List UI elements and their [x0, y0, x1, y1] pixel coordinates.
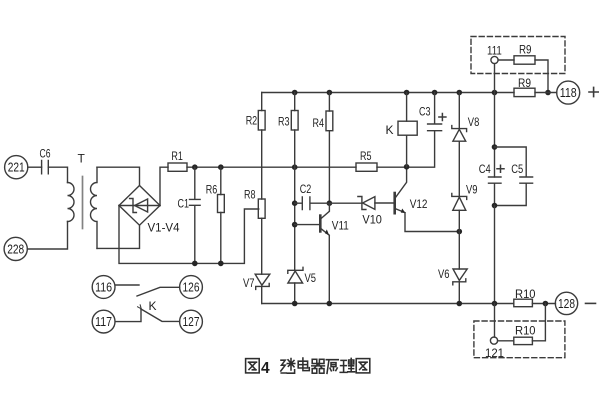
- svg-text:C5: C5: [511, 162, 523, 176]
- svg-text:V1-V4: V1-V4: [148, 221, 180, 235]
- node K top: [404, 90, 410, 96]
- svg-text:C6: C6: [40, 147, 51, 161]
- node C2 V11 collector: [327, 200, 333, 206]
- wire V7 to bottom rail: [261, 286, 263, 303]
- node C4 column top: [492, 90, 498, 96]
- wire C6 to transformer primary: [48, 167, 67, 182]
- bridge minus bus wire: [119, 206, 259, 264]
- svg-text:C2: C2: [300, 182, 312, 196]
- wire V9 to V6: [458, 210, 460, 269]
- node R10 branch: [543, 301, 549, 307]
- node C1 top: [192, 164, 198, 170]
- svg-text:R1: R1: [171, 149, 183, 163]
- wire 221 to C6: [28, 166, 42, 168]
- wire 121 column below rail: [494, 304, 496, 338]
- node V6 bottom: [457, 301, 463, 307]
- wire V6 to bottom rail: [458, 282, 460, 304]
- wire mid rail R1 to R5: [187, 166, 356, 168]
- node V8 top: [457, 90, 463, 96]
- terminal 117: [92, 310, 115, 333]
- capacitor C5: [495, 147, 533, 206]
- svg-text:126: 126: [183, 280, 200, 294]
- svg-text:T: T: [78, 152, 86, 166]
- node R9 branch: [545, 90, 551, 96]
- node V11 emitter bottom: [327, 301, 333, 307]
- svg-text:V9: V9: [466, 183, 478, 197]
- wire secondary bottom to bridge: [97, 225, 140, 248]
- wire C4 column: [494, 93, 496, 178]
- svg-text:R2: R2: [246, 113, 258, 127]
- capacitor C2: [295, 182, 362, 210]
- resistor R9 upper: [514, 43, 535, 65]
- svg-text:116: 116: [95, 280, 112, 294]
- terminal 118: [557, 81, 580, 104]
- zener V6: [438, 267, 467, 285]
- bottom rail wire: [262, 303, 514, 305]
- transformer T primary winding: [68, 152, 86, 222]
- resistor R2: [246, 93, 265, 200]
- wire R9 upper to rail: [535, 60, 548, 93]
- node R6 top: [218, 164, 224, 170]
- svg-text:C1: C1: [178, 197, 190, 211]
- svg-text:K: K: [386, 123, 394, 137]
- node C1 bottom: [192, 261, 198, 267]
- switch contact K1 116-126: [115, 285, 179, 296]
- wire 111 column: [494, 64, 496, 93]
- node R6 bottom: [218, 261, 224, 267]
- wire secondary top to bridge: [97, 167, 140, 185]
- node C4 bottom: [492, 203, 498, 209]
- terminal 228: [4, 237, 27, 260]
- caption 图4 继电器原理图: [246, 358, 370, 377]
- node V12 emitter to zener column: [457, 229, 463, 235]
- svg-text:C3: C3: [419, 105, 431, 119]
- zener V7: [243, 274, 270, 290]
- svg-text:R4: R4: [313, 116, 325, 130]
- wire 111 to R9: [498, 59, 514, 61]
- svg-text:V7: V7: [243, 276, 255, 290]
- resistor R10 lower: [514, 323, 536, 344]
- wire R5 to C3 bottom: [377, 131, 435, 168]
- svg-text:K: K: [149, 299, 157, 313]
- svg-text:228: 228: [7, 242, 24, 256]
- node R3 top: [292, 90, 298, 96]
- dashed box 111: [471, 37, 565, 74]
- svg-text:C4: C4: [479, 162, 491, 176]
- capacitor C1: [178, 167, 201, 263]
- plus sign 118: [589, 87, 598, 96]
- terminal 116: [92, 276, 115, 299]
- svg-text:117: 117: [95, 315, 112, 329]
- switch contact K2 117-127: [115, 299, 179, 322]
- wire V5 to bottom rail: [294, 283, 296, 304]
- resistor R9 lower: [514, 76, 535, 97]
- wire C4 column to bottom rail: [494, 206, 496, 304]
- resistor R6: [206, 167, 225, 263]
- svg-text:V12: V12: [410, 197, 428, 211]
- diode V10: [358, 197, 395, 227]
- svg-text:221: 221: [8, 161, 25, 175]
- terminal 128: [555, 292, 577, 314]
- svg-text:R5: R5: [360, 149, 372, 163]
- node K bottom V12 collector: [404, 164, 410, 170]
- svg-text:V11: V11: [332, 219, 349, 233]
- svg-text:V6: V6: [438, 267, 450, 281]
- resistor R1: [168, 149, 187, 171]
- terminal 111: [487, 44, 502, 64]
- svg-text:R10: R10: [515, 287, 536, 301]
- svg-text:R9: R9: [519, 43, 532, 57]
- wire rail to 118: [535, 92, 557, 94]
- svg-text:R10: R10: [515, 323, 536, 337]
- wire R8 to zener V7: [261, 218, 263, 274]
- resistor R5: [356, 149, 377, 171]
- svg-text:111: 111: [487, 44, 502, 58]
- capacitor C3: [419, 93, 446, 131]
- terminal 221: [5, 156, 28, 179]
- svg-text:R8: R8: [244, 188, 256, 202]
- svg-text:V8: V8: [468, 115, 480, 129]
- svg-text:R9: R9: [518, 76, 531, 90]
- svg-text:R3: R3: [278, 114, 290, 128]
- zener V9: [452, 183, 478, 211]
- wire 121 to R10 lower: [498, 340, 514, 342]
- transistor V12: [395, 166, 460, 231]
- minus sign 128: [586, 302, 596, 304]
- wire R10 to 128: [532, 303, 555, 305]
- svg-text:R6: R6: [206, 183, 218, 197]
- svg-text:127: 127: [183, 315, 200, 329]
- node R4 top: [327, 90, 333, 96]
- svg-text:128: 128: [558, 297, 575, 311]
- transformer T secondary winding: [91, 167, 97, 248]
- svg-text:V10: V10: [362, 213, 382, 227]
- svg-text:4: 4: [261, 360, 270, 377]
- svg-text:V5: V5: [305, 271, 317, 285]
- resistor R10 upper: [514, 287, 536, 307]
- resistor R3: [278, 93, 298, 271]
- transformer core: [82, 177, 84, 229]
- terminal 127: [180, 310, 203, 333]
- capacitor C6: [40, 147, 51, 174]
- node C3 top: [432, 90, 438, 96]
- wire V8 to V9: [458, 141, 460, 196]
- node 121 column: [492, 301, 498, 307]
- relay coil K: [386, 93, 418, 167]
- capacitor C4: [479, 162, 504, 206]
- wire R10 lower to rail: [532, 304, 545, 341]
- dashed box 121: [474, 321, 565, 358]
- resistor R8: [244, 188, 265, 219]
- svg-text:118: 118: [560, 86, 577, 100]
- zener V8: [452, 93, 480, 142]
- node R3 mid rail: [292, 164, 298, 170]
- transistor V11: [295, 203, 349, 303]
- node V11 base: [292, 222, 298, 228]
- node V5 bottom: [292, 301, 298, 307]
- resistor R4: [313, 93, 333, 204]
- wire primary bottom to 228: [28, 222, 68, 250]
- wire bridge plus to R1: [160, 167, 168, 205]
- node C4 top: [492, 144, 498, 150]
- zener V5: [288, 267, 316, 285]
- terminal 126: [180, 276, 203, 299]
- top rail wire: [262, 92, 514, 94]
- node R3 C2: [292, 200, 298, 206]
- terminal 121: [485, 337, 504, 360]
- bridge rectifier V1-V4: [119, 186, 180, 235]
